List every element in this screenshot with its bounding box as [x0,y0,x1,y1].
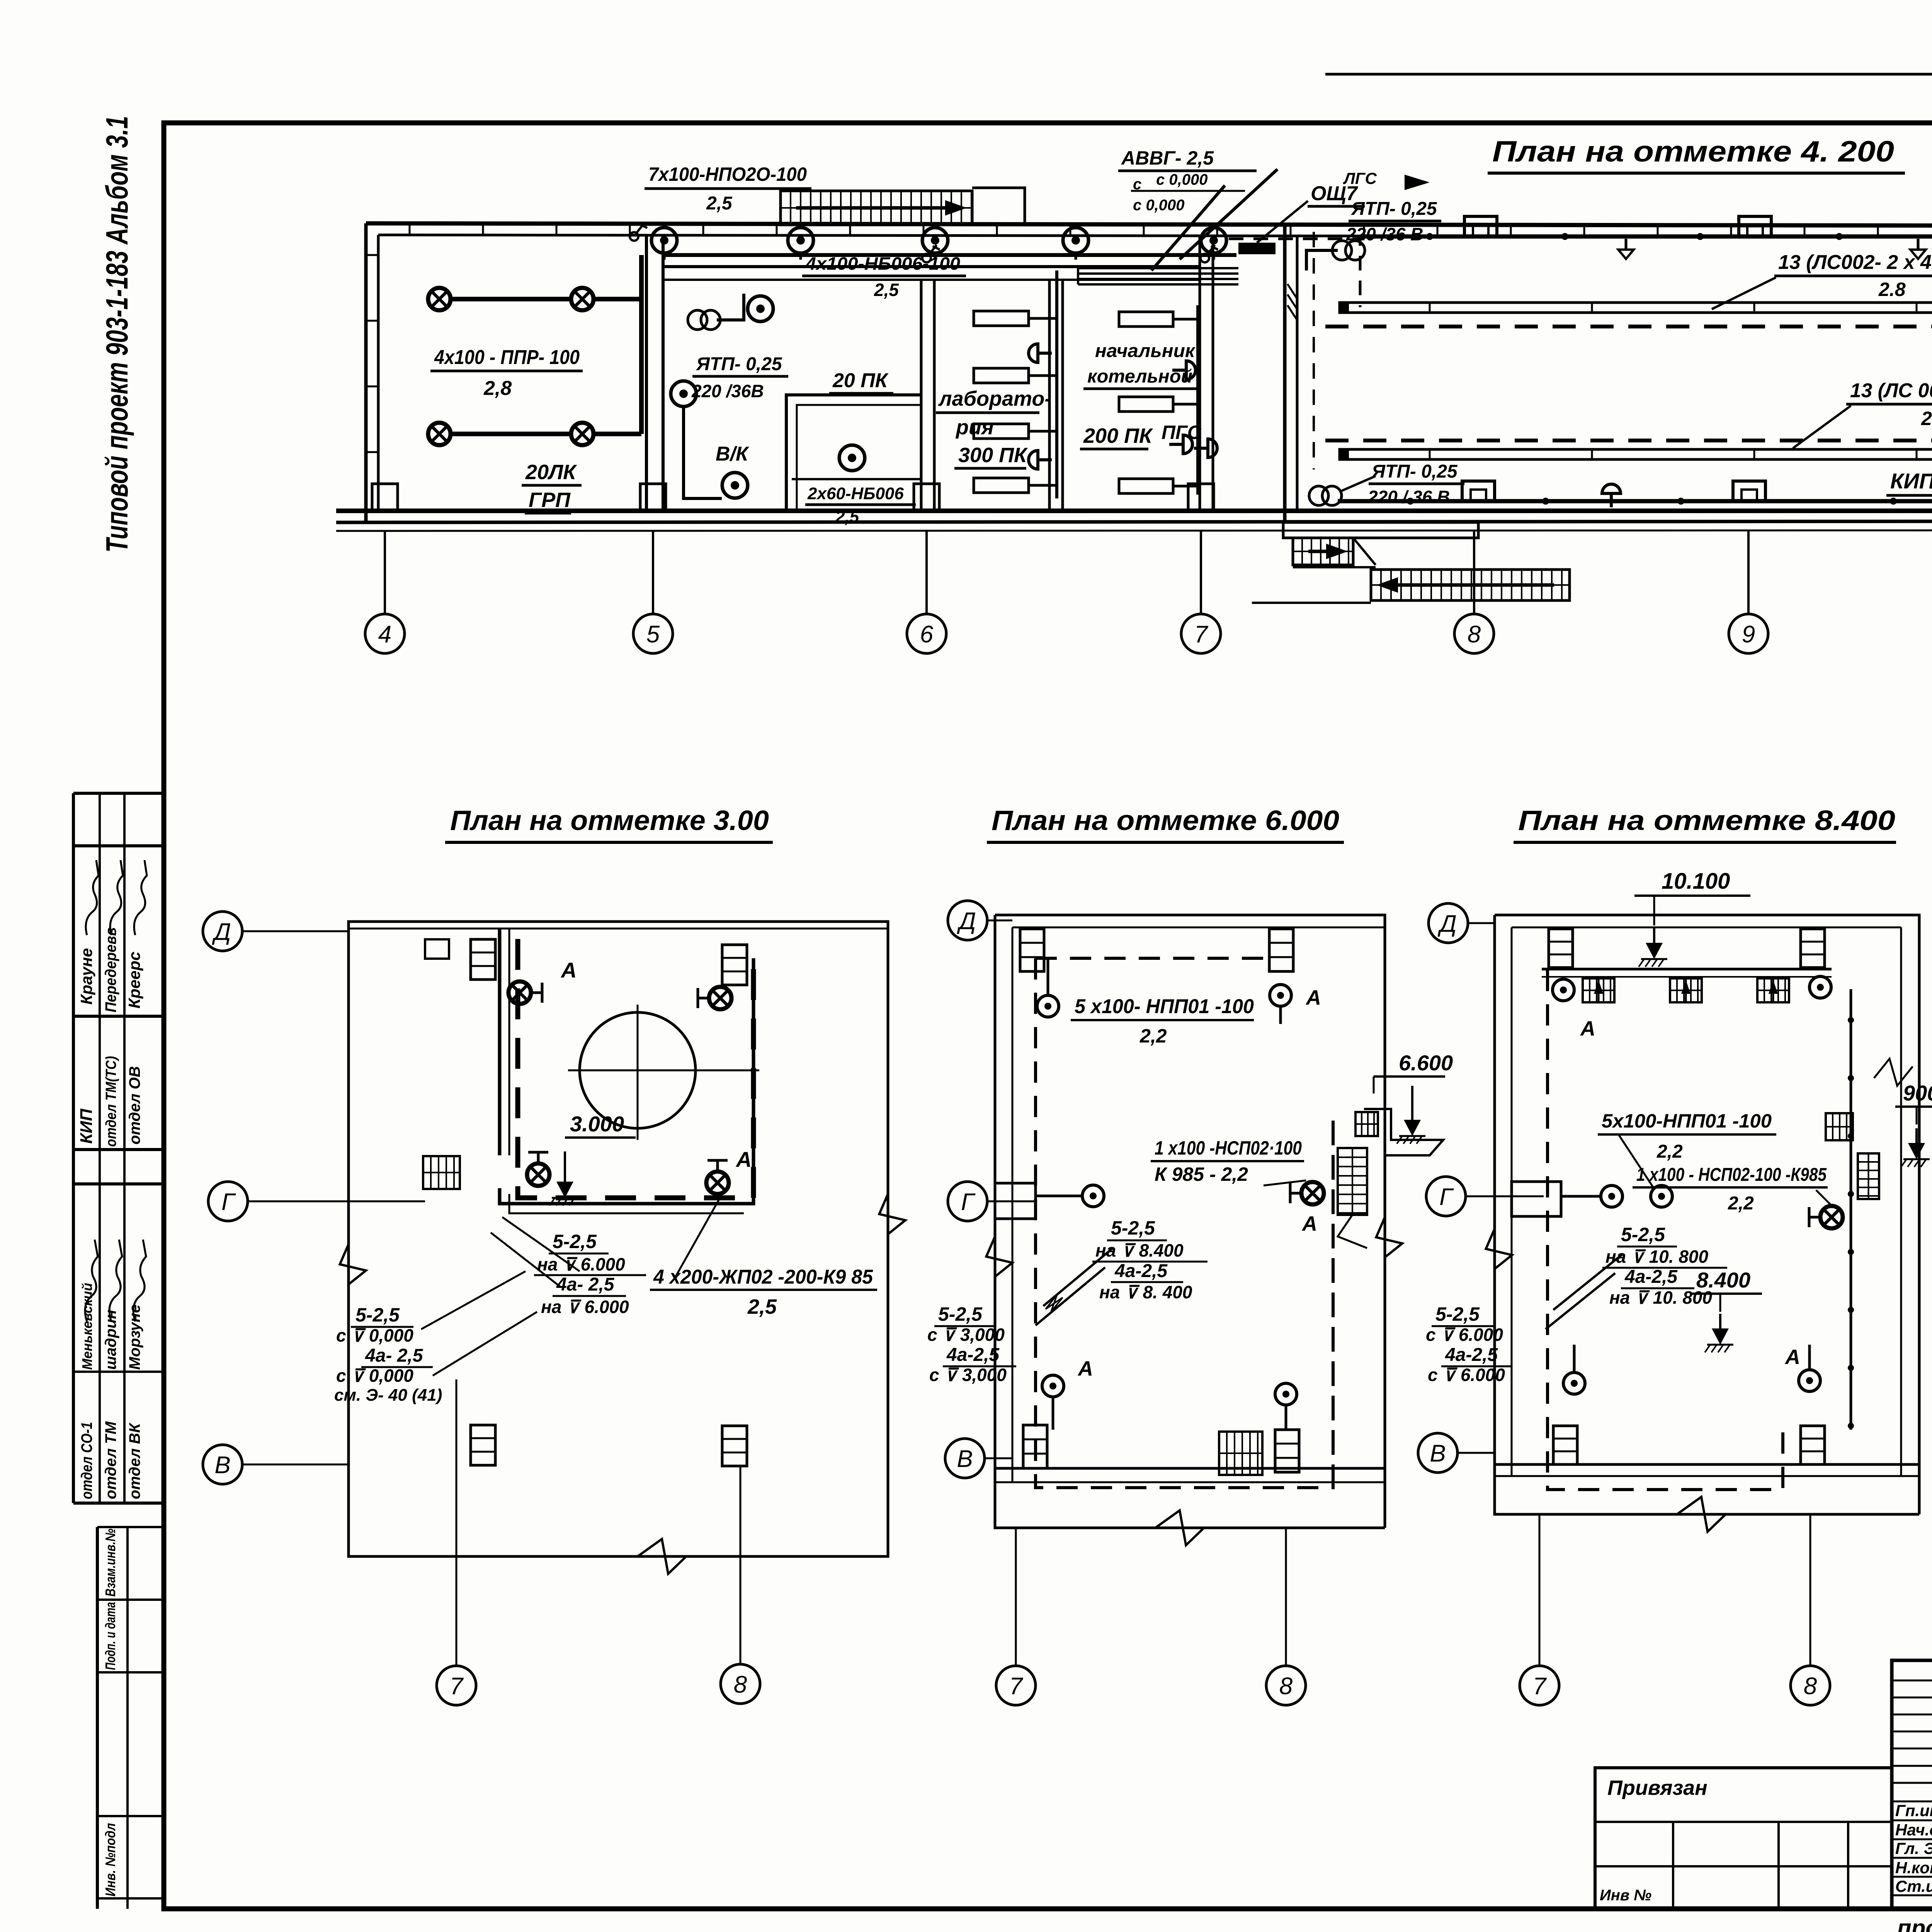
svg-text:5х100-НПП01 -100: 5х100-НПП01 -100 [1602,1110,1772,1132]
plan1 wall breaks [340,1244,366,1284]
plan3 outline [1495,915,1919,1514]
sheet top edge line [1325,73,1932,76]
svg-text:7: 7 [450,1673,464,1699]
lamp row 1 wire [452,297,570,301]
partition P3 [1048,280,1051,511]
plan3 G-axis wall box [1512,1182,1561,1216]
svg-text:10.100: 10.100 [1662,869,1730,894]
plan3 axes [1468,922,1495,924]
plan1 heavy dashed cable [518,939,753,1198]
svg-text:1 х100 - НСП02-100 -К985: 1 х100 - НСП02-100 -К985 [1636,1165,1827,1185]
plan1 axis D [242,930,349,932]
svg-text:Крауне: Крауне [77,948,95,1005]
plan3 footings [1549,929,1573,968]
svg-text:7: 7 [1009,1673,1024,1699]
junction box T1 [1464,216,1497,236]
svg-text:с ⊽ 3,000: с ⊽ 3,000 [929,1365,1007,1385]
stair long [1371,570,1570,600]
svg-text:4 х200-ЖП02 -200-К9 85: 4 х200-ЖП02 -200-К9 85 [653,1266,873,1288]
plan2 axes [987,920,1012,922]
left sidebar stamp table [73,793,164,1909]
fixture row 1 [1340,303,1932,313]
svg-text:Нач.отд.: Нач.отд. [1895,1821,1932,1839]
sconce pgs [1194,439,1217,457]
svg-text:4а- 2,5: 4а- 2,5 [556,1274,615,1295]
fluorescent fixture NK1 [1119,312,1173,327]
svg-text:7: 7 [1194,621,1209,648]
plan1 tank circle [580,1012,696,1128]
lamp G2 [571,288,594,310]
fluorescent fixture NK2 [1119,397,1173,412]
bottom-left transformer [1309,486,1342,505]
svg-text:В: В [1430,1440,1446,1467]
plan2 outline [995,915,1385,1528]
svg-text:начальник: начальник [1095,341,1196,361]
svg-text:2.8: 2.8 [1921,408,1932,429]
svg-text:13 (ЛС002- 2 х 40) ЛБ: 13 (ЛС002- 2 х 40) ЛБ [1778,251,1932,274]
riser wire on P1 [639,255,644,434]
plan1 stair [423,1156,460,1189]
sconce lab1 [1029,344,1052,362]
grid axis 6 [925,531,928,614]
fixture row 2 [1340,449,1932,459]
svg-text:2,2: 2,2 [1728,1193,1754,1214]
fluorescent fixture LAB3 [974,424,1029,439]
junction box B2 [1733,481,1765,501]
plan3 right wire [1850,989,1852,1430]
sidebar signatures [85,860,147,1321]
plan1 lamp L3 [527,1163,549,1186]
svg-text:2,2: 2,2 [1656,1141,1683,1162]
closet outline [786,395,921,511]
svg-text:3.000: 3.000 [570,1112,624,1136]
svg-text:А: А [1301,1212,1317,1235]
svg-text:1 х100 -НСП02·100: 1 х100 -НСП02·100 [1155,1137,1302,1159]
svg-text:КИП: КИП [77,1108,96,1144]
svg-text:ГРП: ГРП [529,488,571,512]
plan2 dashed loop [1036,958,1333,1488]
svg-text:2.8: 2.8 [1878,279,1906,300]
svg-text:Взам.инв.№: Взам.инв.№ [102,1529,118,1597]
svg-text:Г: Г [1439,1184,1454,1210]
lamp G3 [428,423,451,445]
svg-text:с ⊽ 6.000: с ⊽ 6.000 [1426,1325,1503,1345]
svg-text:План на отметке 6.000: План на отметке 6.000 [992,805,1339,836]
svg-text:ЛГС: ЛГС [1343,169,1377,187]
platform left [1283,522,1478,538]
plan2 bottom stair [1219,1432,1262,1475]
plan2 breaks [986,1236,1013,1277]
svg-text:5 х100- НПП01 -100: 5 х100- НПП01 -100 [1075,995,1254,1018]
sconce lab2 [1029,451,1052,469]
svg-text:рия: рия [955,416,994,439]
svg-text:5-2,5: 5-2,5 [1621,1224,1665,1245]
svg-text:отдел ВК: отдел ВК [126,1422,143,1499]
svg-text:4: 4 [378,621,391,648]
lab riser wire [1055,270,1058,498]
fluorescent fixture NK3 [1119,479,1173,493]
svg-text:А: А [1580,1017,1595,1040]
svg-text:8: 8 [734,1671,747,1698]
svg-text:2,5: 2,5 [835,507,859,526]
svg-text:Д: Д [212,918,231,945]
svg-text:с ⊽ 0,000: с ⊽ 0,000 [336,1366,413,1386]
ceiling lamp VK1 [671,381,696,406]
plan1 footings [471,939,495,980]
plan2 G-axis wall box [995,1183,1036,1219]
svg-text:Креерс: Креерс [125,952,143,1009]
svg-text:Г: Г [961,1189,976,1215]
svg-text:220 /36В: 220 /36В [691,381,764,401]
svg-text:Н.контр.: Н.контр. [1895,1859,1932,1877]
plan1 stems to grid circles [456,1379,457,1666]
svg-text:8: 8 [1804,1673,1817,1699]
svg-text:4а-2,5: 4а-2,5 [1624,1267,1678,1287]
plan3 bottom wall [1495,1463,1919,1466]
bottom wire run [1338,499,1932,503]
svg-text:А: А [1784,1345,1800,1369]
svg-text:КИП: КИП [1890,469,1932,493]
svg-text:В: В [214,1452,230,1478]
svg-text:ЯТП- 0,25: ЯТП- 0,25 [1350,199,1437,219]
corridor lamp C2 [788,228,813,253]
privyazan table [1595,1768,1892,1909]
plan1 axis V [242,1464,349,1466]
corridor wire [664,253,1236,257]
svg-text:на ⊽ 6.000: на ⊽ 6.000 [541,1297,629,1317]
svg-text:4х100-НБ006-100: 4х100-НБ006-100 [805,253,960,274]
grid axis 7 [1200,531,1202,614]
svg-text:220 /36 В: 220 /36 В [1346,224,1423,244]
svg-text:Гл. ЭП.: Гл. ЭП. [1895,1839,1932,1857]
svg-text:ЯТП- 0,25: ЯТП- 0,25 [696,354,782,374]
svg-text:котельной: котельной [1087,366,1192,387]
dashed shaft line [1313,232,1315,469]
ceiling lamp 20pk [748,296,773,321]
svg-text:5-2,5: 5-2,5 [355,1304,400,1326]
fluorescent fixture LAB4 [974,478,1029,493]
diagonal cable 2 [1151,185,1225,270]
lamp row 2 wire [452,432,570,436]
plan2 bottom wall [995,1467,1385,1470]
wire tr corner [1306,250,1338,270]
svg-text:6: 6 [920,621,934,648]
wall hatch marks [1287,284,1298,321]
svg-text:лаборато-: лаборато- [938,387,1051,410]
svg-text:Д: Д [957,908,976,934]
svg-text:20 ПК: 20 ПК [832,369,889,392]
svg-text:20ЛК: 20ЛК [525,461,577,484]
svg-text:АВВГ- 2,5: АВВГ- 2,5 [1121,147,1214,169]
corridor lamp C1 [651,228,677,253]
svg-text:8: 8 [1468,621,1481,648]
ground mark [1910,239,1926,259]
plan1 lamp L2 [709,987,731,1009]
svg-text:Передеревв: Передеревв [102,927,119,1012]
svg-text:План на отметке 4. 200: План на отметке 4. 200 [1492,135,1894,168]
svg-text:13 (ЛС 002- 2 х 40) ЛБ: 13 (ЛС 002- 2 х 40) ЛБ [1850,379,1932,402]
plan3 mid stair [1826,1113,1853,1140]
svg-text:К 985 - 2,2: К 985 - 2,2 [1155,1163,1248,1185]
svg-text:300 ПК: 300 ПК [958,444,1028,467]
svg-text:2х60-НБ006: 2х60-НБ006 [807,484,904,503]
svg-text:4а-2,5: 4а-2,5 [1114,1261,1168,1281]
right section left wall [1283,223,1287,522]
top wire run [1361,235,1932,239]
svg-text:ЯТП- 0,25: ЯТП- 0,25 [1371,461,1458,482]
plan1 axis G [248,1201,425,1202]
svg-text:отдел ТМ(ТС): отдел ТМ(ТС) [103,1056,119,1147]
plan3 crane beam [1542,968,1832,971]
OSH7 leader [1257,201,1308,243]
bottom wall and axis A line [336,509,1932,513]
plan2 stems to circles [1015,1528,1017,1666]
svg-text:Инв №: Инв № [1600,1887,1651,1904]
svg-text:с ⊽ 6.000: с ⊽ 6.000 [1428,1365,1505,1385]
stair small left [1293,538,1353,565]
diagonal cable [1180,169,1277,259]
svg-text:2,5: 2,5 [747,1295,777,1318]
svg-text:5-2,5: 5-2,5 [1111,1217,1155,1239]
transformer YATP [688,310,720,330]
corridor lamp C4 [1063,228,1088,253]
switch P2 [922,245,940,262]
svg-text:на ⊽ 10. 800: на ⊽ 10. 800 [1609,1287,1712,1308]
svg-text:на ⊽ 6.000: на ⊽ 6.000 [537,1254,625,1274]
svg-text:см. Э- 40 (41): см. Э- 40 (41) [334,1386,442,1405]
svg-text:А: А [735,1147,752,1172]
switch near P1 [630,223,647,241]
dashed cable row1 [1325,325,1932,328]
svg-text:200 ПК: 200 ПК [1083,424,1153,447]
plan1 outline [349,922,888,1556]
svg-text:Г: Г [221,1189,236,1215]
dashed cable row2 [1325,439,1932,442]
roof stair left [781,191,972,225]
svg-text:4х100 - ППР- 100: 4х100 - ППР- 100 [434,346,580,369]
plan1 lamp L4 [706,1172,729,1194]
plan3 corner lamps [1553,979,1574,1001]
svg-text:Морзуне: Морзуне [126,1304,143,1370]
svg-text:с ⊽ 0,000: с ⊽ 0,000 [336,1325,413,1345]
wall tick marks top wall [366,223,1932,452]
svg-text:4а-2,5: 4а-2,5 [1445,1345,1498,1365]
plan1 lamp L1 [509,981,531,1004]
left wall [364,223,368,522]
svg-text:А: А [1305,986,1321,1009]
svg-text:А: А [1077,1357,1093,1380]
plan2 footings [1020,929,1044,971]
plan2 right wire dashed [1332,1121,1335,1488]
nk riser wire [1196,305,1199,495]
plan3 stems to circles [1539,1514,1541,1666]
svg-text:Д: Д [1437,910,1457,937]
svg-text:Привязан: Привязан [1607,1776,1708,1799]
grid axis 5 [652,531,654,614]
wire from transformer [717,294,744,320]
partition P4 [1199,235,1201,511]
lamp G4 [571,423,594,445]
corridor lamp C5 [1201,228,1226,253]
svg-text:План на отметке 8.400: План на отметке 8.400 [1518,805,1895,836]
svg-text:Ст.инж.: Ст.инж. [1895,1877,1932,1895]
ceiling lamp closet [839,445,865,471]
grid axis 9 [1747,531,1750,614]
stamp signature table [1892,1660,1932,1909]
svg-text:2,5: 2,5 [874,280,899,300]
svg-text:В: В [957,1446,973,1472]
partition wall P1 [645,235,648,511]
svg-text:Типовой проект 903-1-183 Ал: Типовой проект 903-1-183 Альбом 3.1 [100,116,134,553]
svg-text:5-2,5: 5-2,5 [938,1303,983,1325]
svg-text:6.600: 6.600 [1399,1051,1453,1075]
sconce bottom [1602,484,1621,507]
svg-text:4а-2,5: 4а-2,5 [946,1345,1000,1365]
svg-text:на ⊽ 8. 400: на ⊽ 8. 400 [1099,1282,1192,1302]
svg-text:8: 8 [1279,1673,1293,1699]
svg-text:ПГС: ПГС [1162,422,1202,443]
svg-text:7х100-НПО2О-100: 7х100-НПО2О-100 [648,163,807,185]
svg-text:Подп. и дата: Подп. и дата [102,1602,118,1670]
svg-text:с 0,000: с 0,000 [1156,171,1207,188]
svg-text:2,2: 2,2 [1139,1025,1167,1047]
top wall [366,223,1932,226]
svg-text:Гп.инж.пр.: Гп.инж.пр. [1895,1801,1932,1820]
dashed corner near OSH7 [1229,239,1360,307]
plan3 dashed loop [1548,970,1783,1490]
ground mark [1618,239,1634,259]
plan2 right stair [1338,1148,1367,1215]
wire bundle to OSH7 [1078,268,1238,284]
fluorescent fixture LAB2 [974,368,1029,383]
svg-text:пров. Суриков: пров. Суриков [1897,1915,1932,1932]
fluorescent fixture LAB1 [974,311,1029,326]
junction box B1 [1462,481,1495,501]
svg-text:5: 5 [646,621,660,648]
plan2 lamp A [1301,1182,1324,1204]
sconce nk2 [1169,435,1192,454]
sconce nk1 [1172,361,1196,379]
grid axis 4 [384,531,386,614]
switch P4 [1201,245,1218,262]
ceiling lamp VK2 [722,473,748,498]
svg-text:отдел ОВ: отдел ОВ [126,1066,143,1145]
junction box T2 [1739,216,1771,236]
lamp G1 [428,288,451,310]
svg-text:с 0,000: с 0,000 [1133,197,1184,214]
svg-text:7: 7 [1533,1673,1547,1699]
svg-text:2,8: 2,8 [483,377,512,400]
svg-text:А: А [560,958,577,982]
plan3 lamp A [1820,1206,1843,1228]
plan1 inner room walls [500,929,753,1204]
svg-text:отдел СО-1: отдел СО-1 [78,1422,95,1499]
corridor wall [663,265,1200,268]
svg-text:План на отметке 3.00: План на отметке 3.00 [450,805,769,836]
partition P2 [920,280,923,511]
grid axis 8 [1473,531,1475,614]
svg-text:5-2,5: 5-2,5 [553,1231,597,1252]
plan3 breaks [1486,1229,1512,1269]
svg-text:9000: 9000 [1903,1081,1932,1105]
svg-text:2,5: 2,5 [706,193,733,214]
svg-text:5-2,5: 5-2,5 [1435,1303,1480,1325]
column footings top plan [372,484,398,511]
svg-text:с ⊽ 3,000: с ⊽ 3,000 [927,1325,1005,1345]
plan1 leaders to 5-2,5 [502,1217,580,1271]
top-left transformer [1332,241,1365,260]
vk wires [684,407,722,498]
corridor lamp C3 [922,228,948,253]
svg-text:4а- 2,5: 4а- 2,5 [365,1345,423,1366]
svg-text:В/К: В/К [716,443,749,465]
svg-text:9: 9 [1742,621,1755,648]
svg-text:Инв. №подл: Инв. №подл [102,1823,118,1896]
OSH7 panel [1238,243,1276,254]
svg-text:отдел ТМ: отдел ТМ [102,1421,119,1499]
plan2 corner lamps [1037,995,1059,1017]
